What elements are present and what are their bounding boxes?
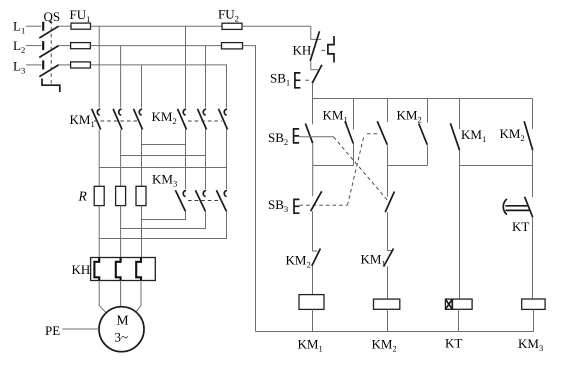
resistor R pole 3	[136, 186, 146, 205]
svg-text:L2: L2	[13, 38, 25, 55]
svg-text:FU1: FU1	[70, 7, 91, 24]
wire KM2 pole2 bottom	[205, 130, 207, 190]
thermal relay KH element 2	[116, 258, 121, 281]
contactor KM2 aux NO contact branch F	[524, 99, 533, 151]
svg-text:KM2: KM2	[397, 108, 422, 125]
contactor KM2 main pole 2	[198, 109, 207, 130]
switch QS linkage dashed	[50, 21, 52, 85]
wire KM3 pole3 bottom link	[99, 211, 226, 238]
wire rail C below R	[141, 206, 143, 258]
coil KM1	[299, 295, 324, 310]
svg-text:KM1: KM1	[461, 127, 486, 144]
svg-text:L3: L3	[13, 59, 25, 76]
svg-text:3~: 3~	[115, 330, 129, 345]
button SB1 NC contact	[311, 65, 322, 83]
wire L2 lead-in	[26, 45, 42, 47]
wire drop L1 to KM1	[98, 26, 100, 107]
wire branch C top	[387, 99, 389, 123]
fuse FU1 pole 3	[71, 62, 91, 68]
wire drop L2 to KM1	[120, 46, 122, 108]
svg-text:R: R	[78, 189, 88, 204]
wire KM3 pole2 bottom link	[121, 211, 206, 228]
switch QS pole 3	[39, 60, 58, 76]
svg-text:KM3: KM3	[152, 172, 177, 189]
svg-text:KM3: KM3	[518, 336, 543, 353]
svg-text:KM1: KM1	[323, 108, 348, 125]
svg-text:KT: KT	[445, 336, 462, 351]
wire SB1 to bus	[312, 83, 314, 98]
wire link rail B to KM2 pole2	[121, 155, 206, 157]
switch QS handle	[42, 79, 60, 93]
wire KH to motor right	[136, 281, 141, 312]
wire PE to motor	[63, 328, 100, 330]
svg-text:SB3: SB3	[268, 197, 288, 214]
wire branch C to coil KM2	[387, 266, 389, 299]
svg-text:KM2: KM2	[372, 337, 397, 354]
wire QS to FU1 pole2	[59, 45, 71, 47]
contactor KM3 pole 2	[195, 190, 206, 211]
wire KT contact to coil KM3	[532, 217, 534, 299]
contactor KM3 linkage dashed	[188, 200, 222, 202]
svg-text:PE: PE	[45, 323, 60, 338]
wire branch F middle	[532, 150, 534, 197]
motor M1 circle	[99, 307, 144, 352]
relay KT delayed NO contact	[503, 197, 532, 217]
wire drop L2 to KM2	[205, 46, 207, 108]
contactor KM1 main pole 1	[92, 109, 101, 130]
wire KM2 pole1 bottom	[185, 130, 187, 190]
switch QS pole 2	[39, 41, 58, 57]
wire branch C middle	[387, 145, 389, 197]
wire KH to motor middle	[120, 281, 122, 307]
wire L1 lead-in	[26, 25, 42, 27]
svg-text:FU2: FU2	[218, 7, 239, 24]
resistor R pole 1	[94, 186, 104, 205]
contactor KM1 aux NO contact branch E	[450, 99, 459, 151]
wire L1 to FU2	[91, 25, 223, 27]
thermal relay KH element 3	[136, 258, 141, 281]
wire rail B below KM1	[120, 130, 122, 187]
svg-text:KM2: KM2	[286, 253, 311, 270]
wire QS to FU1 pole3	[59, 64, 71, 66]
wire branch C below SB2 NC	[387, 212, 389, 251]
svg-text:KM1: KM1	[298, 337, 323, 354]
contactor KM2 interlock NC contact	[312, 249, 321, 267]
svg-text:M: M	[117, 312, 129, 327]
contactor KM1 selfhold NO contact	[345, 99, 354, 166]
svg-text:KH: KH	[293, 43, 312, 58]
button SB2 actuator	[294, 129, 300, 143]
wire branch A top	[312, 98, 314, 124]
wire rail A below R	[98, 206, 100, 258]
fuse FU2 lower	[222, 43, 243, 49]
wire coil KM2 to bottom bus	[387, 309, 389, 331]
wire L3 lead-in	[26, 64, 42, 66]
contactor KM2 linkage dashed	[188, 120, 222, 122]
svg-text:QS: QS	[44, 9, 61, 24]
relay KH linkage dash	[321, 49, 328, 51]
wire branch E to KT coil	[459, 150, 461, 299]
svg-text:KM2: KM2	[152, 109, 177, 126]
wire control return feed	[243, 46, 256, 332]
resistor R pole 2	[116, 186, 126, 205]
button SB2 NC contact in branch C	[385, 192, 394, 213]
svg-text:SB2: SB2	[268, 130, 288, 147]
wire KH to motor left	[99, 281, 106, 313]
switch QS pole 1	[39, 22, 58, 38]
button SB3 linkage diagonal dashed	[348, 138, 364, 206]
button SB2 NO contact	[305, 124, 312, 144]
wire rail C below KM1	[141, 130, 143, 187]
wire coil KT to bottom bus	[458, 309, 460, 331]
wire KM2 pole3 bottom	[226, 130, 228, 190]
wire L2 to FU2 lower	[90, 45, 221, 47]
svg-text:KM1: KM1	[361, 252, 386, 269]
svg-text:L1: L1	[13, 19, 25, 36]
svg-text:SB1: SB1	[270, 71, 290, 88]
wire rail A below KM1	[98, 130, 100, 187]
wire link rail C to KM2 pole1	[142, 144, 186, 146]
fuse FU2 upper	[222, 23, 242, 29]
wire FU2 to KH contact corner	[242, 26, 311, 39]
wire QS to FU1 pole1	[59, 25, 71, 27]
wire branch A below SB3	[312, 211, 314, 251]
wire KH to SB1	[310, 61, 312, 70]
relay KH trip bracket	[328, 36, 334, 63]
button SB3 linkage dashed	[300, 204, 348, 206]
fuse FU1 pole 2	[71, 43, 91, 49]
button SB3 actuator	[294, 199, 300, 213]
wire coil KM1 to bottom bus	[312, 309, 314, 331]
contactor KM3 pole 1	[175, 190, 186, 211]
svg-text:KT: KT	[512, 219, 529, 234]
contactor KM3 pole 3	[216, 190, 227, 211]
thermal relay KH box	[91, 258, 156, 281]
wire link rail A to KM2 pole3	[99, 167, 226, 169]
svg-text:KH: KH	[72, 262, 91, 277]
fuse FU1 pole 1	[71, 23, 91, 29]
contactor KM2 selfhold NO contact	[419, 99, 428, 166]
button SB3 NC contact in branch A	[311, 191, 322, 211]
contactor KM1 linkage dashed	[94, 120, 137, 122]
coil KM2	[374, 299, 400, 309]
wire branch A middle	[312, 143, 314, 196]
wire bottom control bus	[256, 331, 534, 333]
wire rail B below R	[120, 206, 122, 258]
wire drop L1 to KM2	[185, 26, 187, 107]
wire KM2 selfhold link	[388, 165, 428, 167]
wire link branch E to branch F	[460, 165, 533, 167]
wire coil KM3 to bottom bus	[533, 309, 535, 331]
button SB1 linkage dash	[305, 79, 310, 81]
relay KH NC contact	[310, 31, 321, 61]
contactor KM1 interlock NC contact	[384, 249, 394, 267]
thermal relay KH element 1	[94, 258, 99, 281]
contactor KM2 main pole 1	[178, 109, 187, 130]
wire KM1 selfhold link	[313, 165, 354, 167]
wire top control bus	[313, 98, 533, 100]
wire KM3 pole1 bottom link	[142, 211, 186, 219]
coil KT	[445, 299, 472, 309]
svg-text:KM1: KM1	[70, 112, 95, 129]
svg-text:KM2: KM2	[500, 126, 525, 143]
wire drop L3 to KM1	[141, 65, 143, 108]
button SB3 NO contact in branch C	[377, 121, 387, 144]
contactor KM2 main pole 3	[219, 109, 228, 130]
wire L3 run	[90, 65, 226, 108]
button SB1 actuator	[295, 73, 301, 88]
button SB2 linkage line	[299, 136, 333, 138]
button SB3 linkage dash end	[367, 133, 377, 135]
wire branch A to coil KM1	[312, 266, 314, 295]
coil KM3	[522, 299, 545, 309]
contactor KM1 main pole 3	[134, 109, 143, 130]
contactor KM1 main pole 2	[113, 109, 122, 130]
button SB2 linkage diagonal dashed	[334, 137, 389, 202]
